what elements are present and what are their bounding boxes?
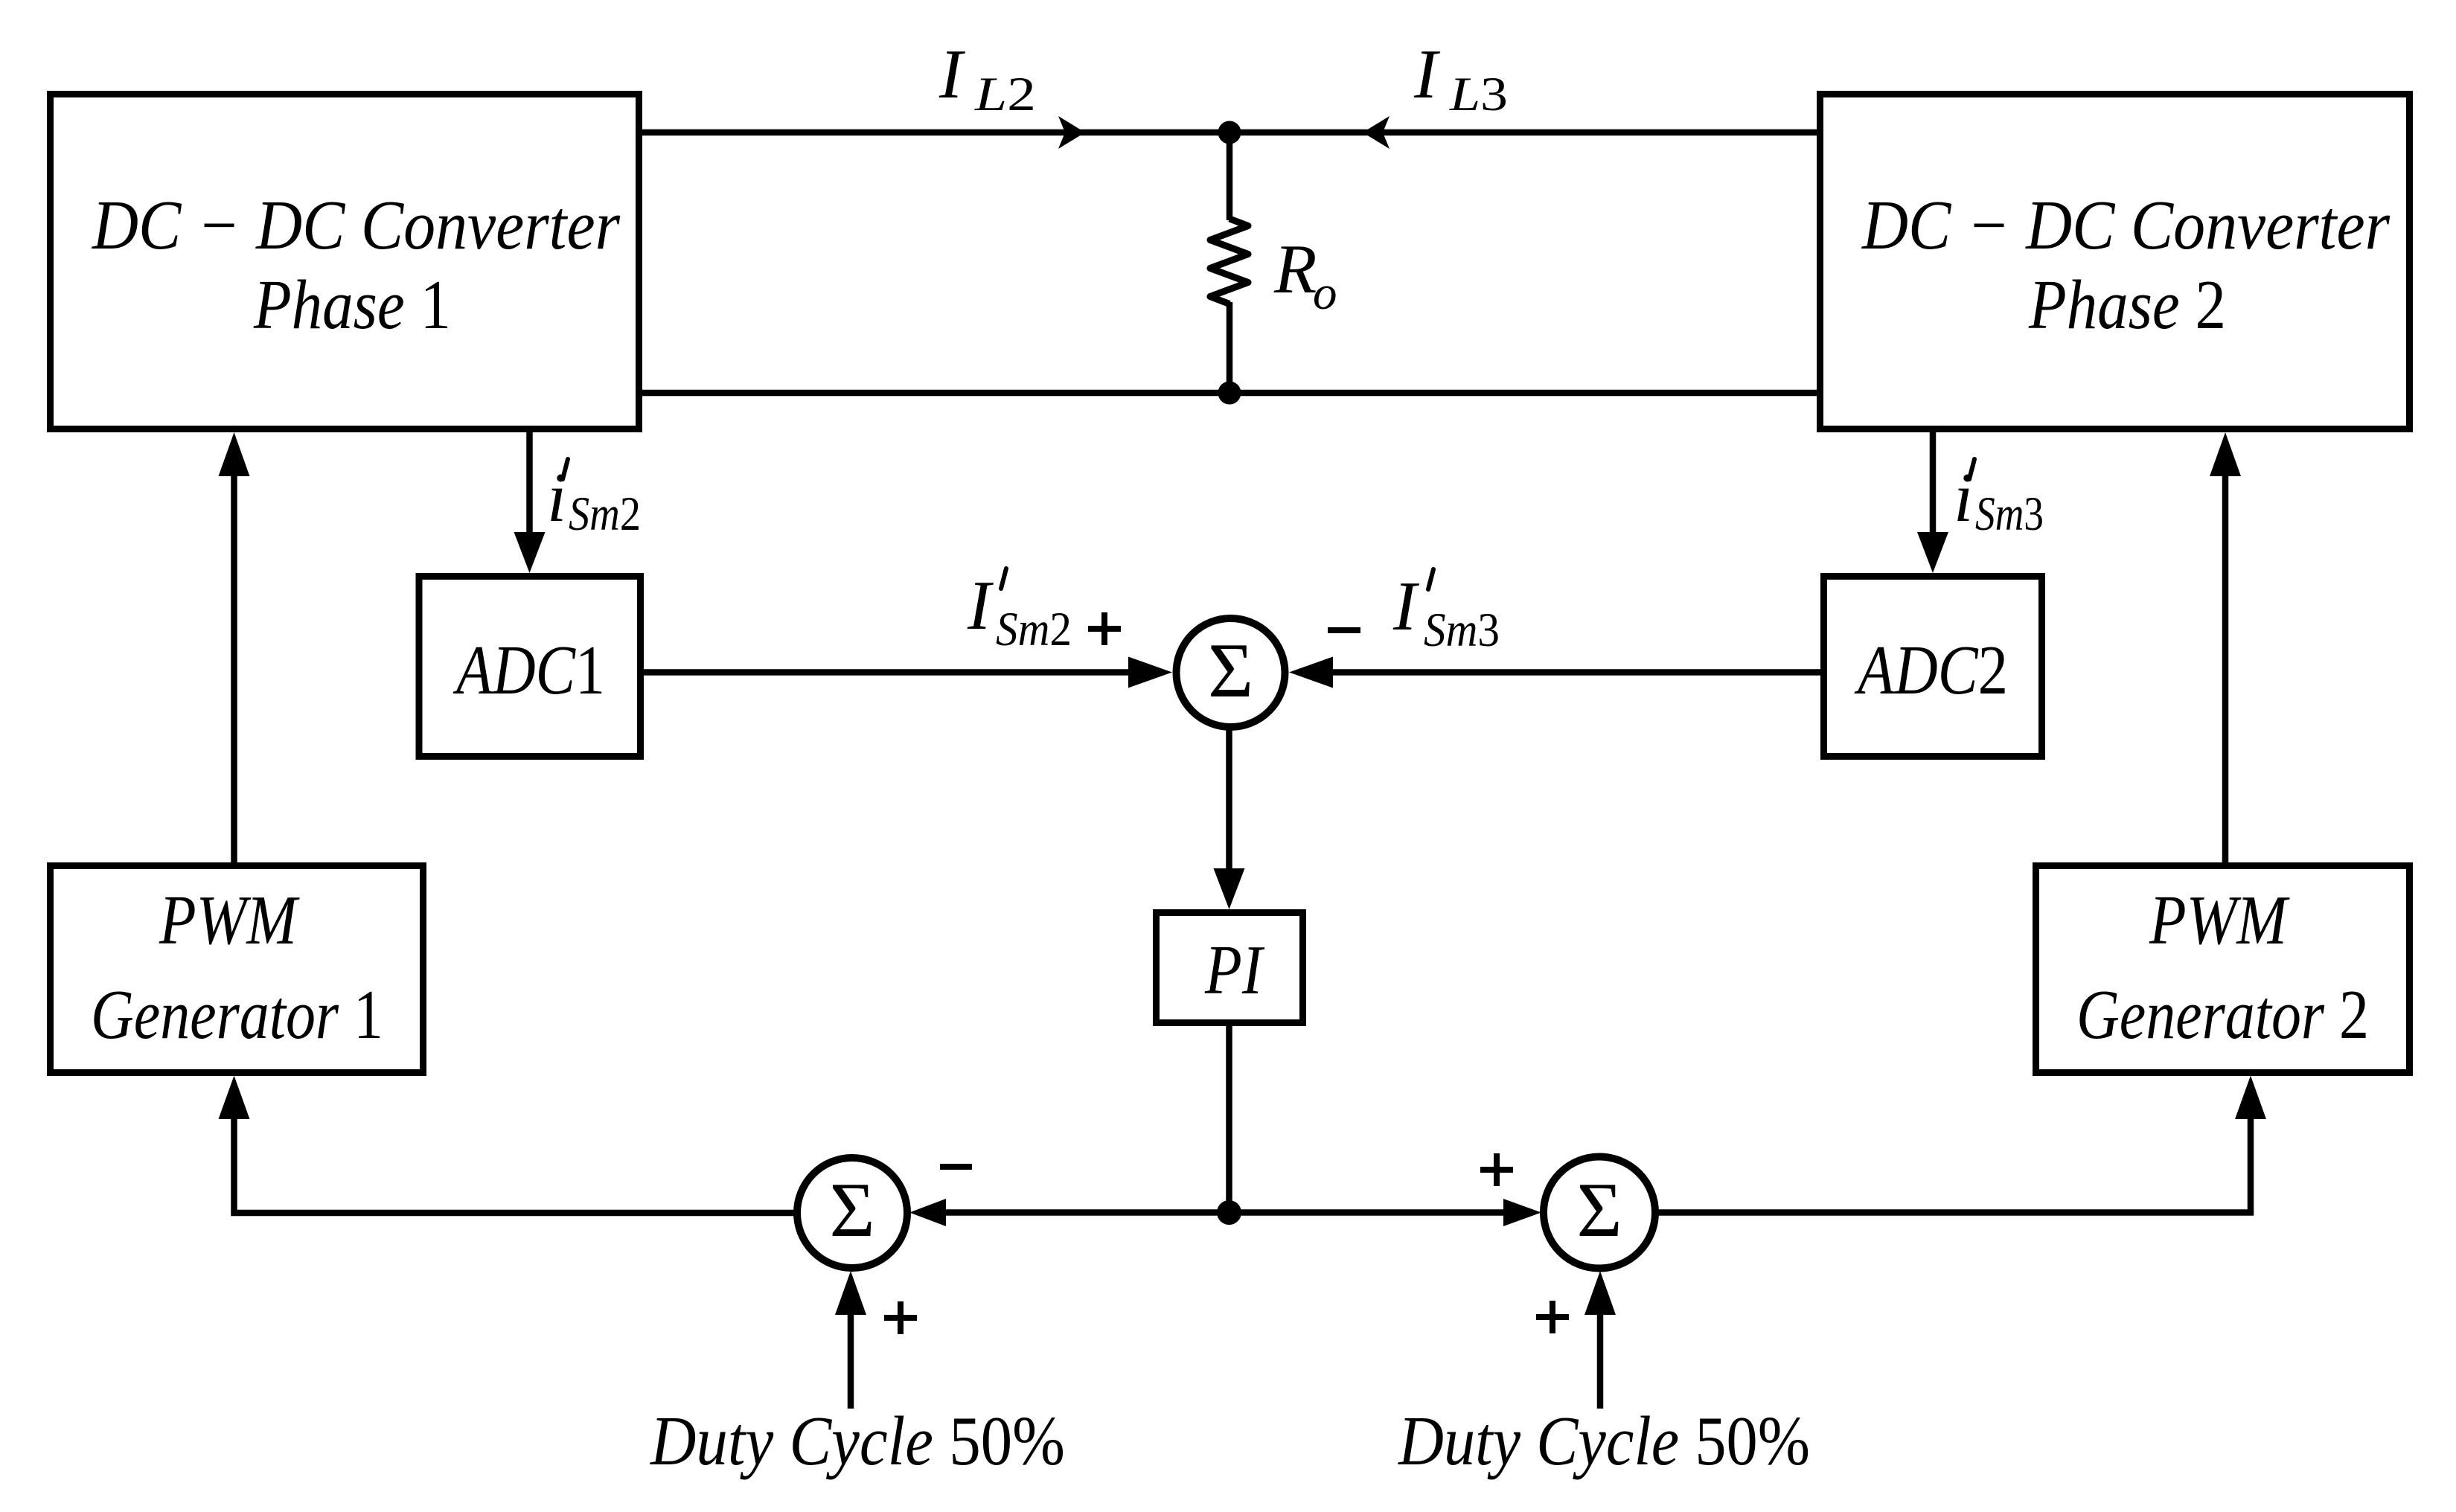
wire duty cycle input to sum2 xyxy=(848,1313,854,1409)
block PWM Generator 1 xyxy=(51,866,423,1073)
plus sign at sum3 left input xyxy=(1480,1153,1513,1186)
svg-text:Σ: Σ xyxy=(1576,1166,1622,1253)
svg-text:L2: L2 xyxy=(974,68,1036,121)
arrow into PI top xyxy=(1214,868,1245,909)
svg-text:I: I xyxy=(967,567,994,644)
svg-text:Σ: Σ xyxy=(1208,627,1253,714)
svg-text:ADC1: ADC1 xyxy=(452,632,605,709)
label Duty Cycle 50% right xyxy=(1397,1403,1810,1480)
wire top bus IL2/IL3 xyxy=(640,129,1819,136)
svg-text:DC − DC Converter: DC − DC Converter xyxy=(91,187,620,264)
wire junction to sum2 and sum3 xyxy=(923,1209,1526,1216)
wire ADC1 to summing junction xyxy=(641,669,1131,676)
label I'Sm3 xyxy=(1392,568,1500,657)
block PI controller xyxy=(1157,913,1303,1023)
minus sign at sum1 right input xyxy=(1328,627,1360,633)
svg-text:PI: PI xyxy=(1204,932,1264,1009)
plus sign at sum3 bottom input xyxy=(1536,1301,1569,1333)
arrow into sum1 left xyxy=(1128,657,1172,688)
summing junction sum3 xyxy=(1544,1157,1655,1269)
svg-text:Σ: Σ xyxy=(829,1166,874,1253)
wire PWM Generator 2 to box2 xyxy=(2222,474,2229,864)
wire sum1 to PI xyxy=(1226,729,1232,872)
svg-text:Generator 1: Generator 1 xyxy=(91,976,383,1054)
svg-text:R: R xyxy=(1273,231,1317,308)
svg-text:Duty Cycle 50%: Duty Cycle 50% xyxy=(1397,1403,1810,1480)
block DC-DC Converter Phase 2 xyxy=(1820,94,2410,429)
svg-text:I: I xyxy=(938,36,965,113)
wire PI to junction node xyxy=(1226,1026,1232,1213)
wire ADC2 to summing junction xyxy=(1331,669,1822,676)
node junction below PI xyxy=(1217,1200,1241,1225)
label Ro xyxy=(1273,231,1337,320)
label IL3 xyxy=(1413,36,1508,121)
arrow into sum2 bottom xyxy=(835,1271,866,1315)
arrow into sum1 right xyxy=(1289,657,1333,688)
svg-text:Phase 2: Phase 2 xyxy=(2028,266,2226,344)
svg-text:o: o xyxy=(1313,266,1337,320)
summing junction sum2 xyxy=(797,1158,907,1268)
label IL2 xyxy=(938,36,1036,121)
label i'Sm2 xyxy=(547,459,641,541)
label i'Sm3 xyxy=(1954,459,2044,541)
plus sign at sum2 bottom input xyxy=(884,1301,917,1334)
block ADC1 xyxy=(419,577,641,757)
arrow into PWM Generator 2 bottom xyxy=(2235,1076,2266,1120)
wire duty cycle input to sum3 xyxy=(1597,1313,1604,1409)
arrow IL2 (mid-wire, barbed, pointing right) xyxy=(1058,116,1085,149)
block PWM Generator 2 xyxy=(2036,866,2410,1073)
arrow IL3 (mid-wire, barbed, pointing left) xyxy=(1363,116,1390,149)
svg-text:DC − DC Converter: DC − DC Converter xyxy=(1861,187,2390,264)
arrow into ADC2 top xyxy=(1917,532,1948,573)
svg-text:PWM: PWM xyxy=(159,882,300,959)
svg-text:ADC2: ADC2 xyxy=(1854,632,2008,709)
svg-text:I: I xyxy=(1413,36,1440,113)
wire PWM Generator 1 to box1 xyxy=(231,474,237,864)
svg-text:Sm2: Sm2 xyxy=(996,603,1072,656)
block ADC2 xyxy=(1824,577,2042,757)
node junction top of Ro xyxy=(1218,121,1241,144)
svg-text:Phase 1: Phase 1 xyxy=(253,266,451,344)
svg-text:Sm3: Sm3 xyxy=(1975,487,2044,541)
summing junction sum1 xyxy=(1177,618,1285,727)
svg-text:Generator 2: Generator 2 xyxy=(2076,976,2369,1054)
wire bottom bus xyxy=(640,390,1819,397)
arrow into ADC1 top xyxy=(514,532,546,573)
arrow into sum3 bottom xyxy=(1584,1271,1616,1315)
svg-text:Sm3: Sm3 xyxy=(1424,603,1500,657)
block DC-DC Converter Phase 1 xyxy=(51,94,639,429)
svg-text:Sm2: Sm2 xyxy=(569,487,641,541)
arrow into sum2 right xyxy=(909,1199,946,1226)
label I'Sm2 xyxy=(967,567,1072,656)
svg-text:I: I xyxy=(1392,568,1419,645)
wire sum2 to PWM Generator 1 xyxy=(234,1116,796,1213)
label Duty Cycle 50% left xyxy=(649,1403,1065,1480)
wire box1 to ADC1 (i'Sm2) xyxy=(526,429,533,536)
node junction bottom of Ro xyxy=(1218,382,1241,405)
svg-text:L3: L3 xyxy=(1449,68,1508,121)
arrow into box1 bottom xyxy=(219,432,250,476)
svg-text:PWM: PWM xyxy=(2149,882,2290,959)
svg-text:Duty Cycle 50%: Duty Cycle 50% xyxy=(649,1403,1065,1480)
wire sum3 to PWM Generator 2 xyxy=(1657,1116,2251,1213)
arrow into box2 bottom xyxy=(2210,432,2241,476)
wire box2 to ADC2 (i'Sm3) xyxy=(1930,429,1937,536)
arrow into sum3 left xyxy=(1503,1199,1541,1226)
plus sign at sum1 left input xyxy=(1088,612,1121,645)
resistor Ro xyxy=(1210,132,1248,393)
arrow into PWM Generator 1 bottom xyxy=(219,1076,250,1120)
minus sign at sum2 right input xyxy=(940,1164,972,1170)
